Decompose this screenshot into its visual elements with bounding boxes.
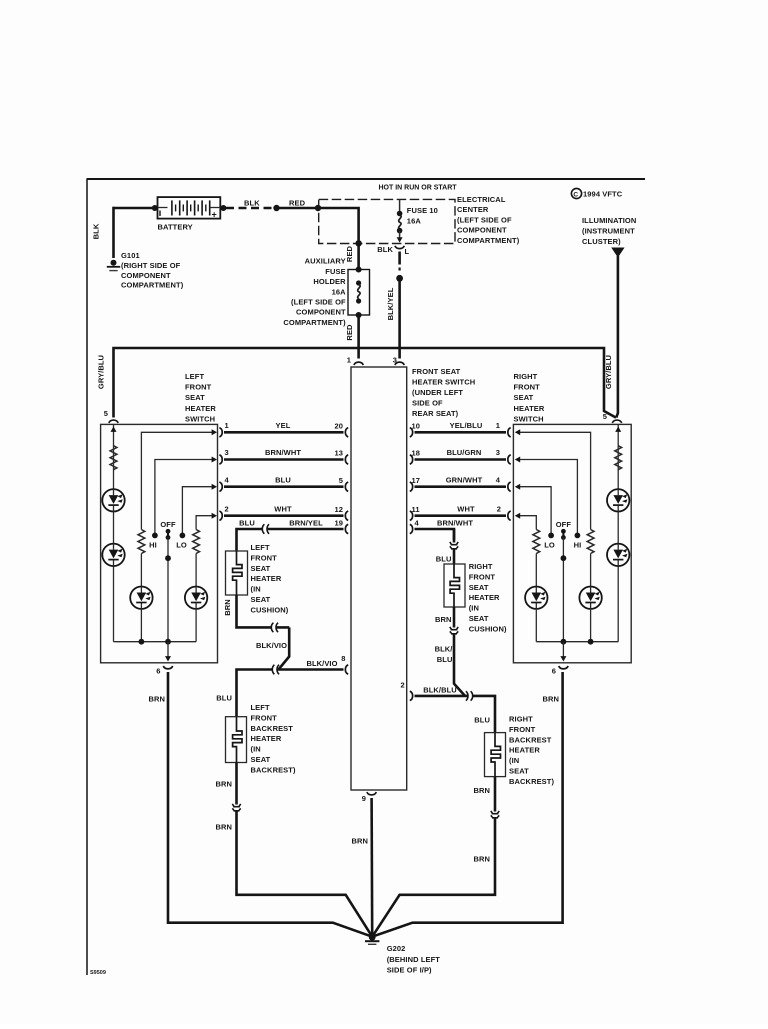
LED indicator left 3 bbox=[130, 587, 152, 609]
inline connector left return bbox=[271, 623, 278, 632]
svg-text:1: 1 bbox=[496, 421, 500, 430]
svg-text:BRN: BRN bbox=[148, 695, 165, 704]
svg-text:WHT: WHT bbox=[457, 504, 475, 513]
svg-text:LEFT: LEFT bbox=[251, 703, 270, 712]
label LEFT FRONT SEAT HEATER (IN SEAT CUSHION) bbox=[251, 543, 289, 614]
svg-text:BRN: BRN bbox=[473, 786, 490, 795]
svg-text:WHT: WHT bbox=[274, 504, 292, 513]
connector cup unit pin 11 bbox=[410, 511, 413, 520]
node battery positive terminal bbox=[220, 205, 226, 211]
svg-text:FRONT SEAT: FRONT SEAT bbox=[412, 367, 461, 376]
arrow down at left pin 6 bbox=[165, 656, 171, 661]
LED indicator left 1 bbox=[102, 489, 124, 511]
svg-text:(INSTRUMENT: (INSTRUMENT bbox=[582, 227, 635, 236]
node bus dot 2 left bbox=[165, 639, 171, 645]
svg-text:BRN/WHT: BRN/WHT bbox=[265, 448, 301, 457]
svg-text:FRONT: FRONT bbox=[509, 725, 536, 734]
svg-text:BLU: BLU bbox=[216, 694, 232, 703]
svg-text:COMPARTMENT): COMPARTMENT) bbox=[457, 236, 520, 245]
wire right backrest return upper bbox=[494, 777, 497, 812]
svg-text:11: 11 bbox=[412, 505, 420, 514]
wire row BLK/VIO to unit pin8 bbox=[237, 670, 344, 717]
svg-text:(IN: (IN bbox=[469, 604, 479, 613]
label RIGHT FRONT SEAT HEATER SWITCH bbox=[514, 372, 545, 423]
svg-text:1: 1 bbox=[347, 356, 351, 365]
wire right seat return bbox=[453, 607, 456, 628]
svg-text:SIDE OF I/P): SIDE OF I/P) bbox=[387, 966, 432, 975]
label RIGHT FRONT BACKREST HEATER (IN SEAT BACKREST) bbox=[509, 715, 554, 786]
svg-text:CUSHION): CUSHION) bbox=[251, 605, 289, 614]
svg-text:RIGHT: RIGHT bbox=[509, 715, 533, 724]
svg-text:BRN: BRN bbox=[473, 855, 490, 864]
resistor left pin5 branch bbox=[110, 446, 117, 470]
illumination off-page triangle bbox=[611, 248, 624, 258]
label G202 bbox=[387, 944, 441, 975]
heater element right front backrest heater bbox=[485, 733, 506, 777]
svg-text:10: 10 bbox=[412, 422, 421, 431]
svg-text:SEAT: SEAT bbox=[251, 755, 271, 764]
svg-text:4: 4 bbox=[225, 475, 230, 484]
arrow up at left pin 5 bbox=[111, 427, 117, 432]
connector cup wire start pin 4 bbox=[219, 482, 222, 491]
svg-text:2: 2 bbox=[225, 504, 229, 513]
connector cup right switch pin 6 bbox=[559, 666, 568, 669]
node bus dot 1 left bbox=[139, 639, 145, 645]
wire RED from electrical center to aux fuse holder bbox=[357, 243, 360, 269]
svg-text:(IN: (IN bbox=[251, 745, 261, 754]
connector right seat return bbox=[450, 627, 458, 634]
resistor left pin1 branch bbox=[138, 530, 145, 554]
svg-text:RIGHT: RIGHT bbox=[469, 562, 493, 571]
left switch internal wire pin2 branch bbox=[196, 516, 213, 530]
connector cup left switch pin 6 bbox=[163, 666, 172, 669]
svg-text:SEAT: SEAT bbox=[251, 564, 271, 573]
connector cup unit pin 9 bottom bbox=[367, 792, 376, 795]
node dot on dashed box bottom bbox=[355, 240, 361, 246]
node battery negative terminal bbox=[152, 205, 158, 211]
left switch internal wire pin1 branch lower bbox=[140, 554, 142, 587]
right switch internal wire pin5 branch bbox=[617, 424, 619, 641]
svg-text:HEATER: HEATER bbox=[251, 734, 282, 743]
LED indicator right 1 bbox=[607, 489, 629, 511]
connector right backrest return bbox=[491, 811, 499, 818]
svg-text:FRONT: FRONT bbox=[185, 383, 212, 392]
svg-text:HI: HI bbox=[149, 541, 157, 550]
svg-text:BLK/YEL: BLK/YEL bbox=[386, 287, 395, 320]
resistor left pin2 branch bbox=[193, 530, 200, 554]
connector cup unit pin 8 bbox=[345, 665, 348, 674]
svg-text:BATTERY: BATTERY bbox=[158, 223, 193, 232]
arrow left at right pin 4 bbox=[515, 484, 520, 490]
svg-text:S9509: S9509 bbox=[90, 970, 106, 976]
svg-text:SEAT: SEAT bbox=[469, 614, 489, 623]
svg-text:G101: G101 bbox=[121, 251, 140, 260]
svg-text:SWITCH: SWITCH bbox=[185, 414, 215, 423]
svg-text:GRY/BLU: GRY/BLU bbox=[97, 355, 106, 389]
svg-text:FUSE 10: FUSE 10 bbox=[407, 206, 438, 215]
connector cup unit pin 17 bbox=[410, 482, 413, 491]
wire BLK/YEL below connector bbox=[398, 252, 401, 265]
wire OFF common left bbox=[167, 538, 169, 642]
LED indicator left 2 bbox=[102, 544, 124, 566]
wire row B BLU/GRN unit pin18 to right switch pin3 bbox=[415, 458, 507, 461]
svg-text:SEAT: SEAT bbox=[185, 393, 205, 402]
svg-text:13: 13 bbox=[334, 449, 343, 458]
svg-text:CENTER: CENTER bbox=[457, 205, 489, 214]
wire row D WHT unit pin11 to right switch pin2 bbox=[415, 514, 507, 517]
border frame top line bbox=[87, 178, 646, 180]
svg-text:CUSHION): CUSHION) bbox=[469, 624, 507, 633]
svg-text:BLU: BLU bbox=[437, 655, 453, 664]
svg-text:BRN/WHT: BRN/WHT bbox=[437, 519, 473, 528]
svg-text:BRN: BRN bbox=[215, 823, 232, 832]
svg-text:BRN: BRN bbox=[223, 599, 232, 616]
svg-text:2: 2 bbox=[401, 681, 405, 690]
left switch internal wire pin2 branch lower bbox=[195, 554, 197, 587]
connector cup unit pin 1 top bbox=[354, 362, 363, 365]
svg-text:CLUSTER): CLUSTER) bbox=[582, 237, 621, 246]
svg-text:1: 1 bbox=[225, 421, 229, 430]
svg-text:YEL/BLU: YEL/BLU bbox=[450, 421, 483, 430]
LED indicator right 2 bbox=[607, 544, 629, 566]
left front seat heater switch box bbox=[101, 424, 218, 662]
svg-text:HEATER: HEATER bbox=[469, 593, 500, 602]
svg-text:COMPARTMENT): COMPARTMENT) bbox=[283, 318, 346, 327]
svg-text:GRN/WHT: GRN/WHT bbox=[446, 475, 483, 484]
svg-text:LEFT: LEFT bbox=[251, 543, 270, 552]
wire row B BRN/WHT left switch pin3 to unit pin13 bbox=[224, 458, 344, 461]
wire OFF common right bbox=[562, 538, 564, 642]
right switch internal wire pin2 branch lower bbox=[535, 554, 537, 587]
label LEFT FRONT BACKREST HEATER (IN SEAT BACKREST) bbox=[251, 703, 296, 774]
wire BRN left switch pin6 to ground bus bbox=[168, 672, 372, 937]
svg-text:9: 9 bbox=[362, 794, 366, 803]
svg-text:4: 4 bbox=[496, 475, 501, 484]
svg-text:RED: RED bbox=[345, 324, 354, 341]
node bus dot 2 right bbox=[588, 639, 594, 645]
heater element right front seat heater bbox=[444, 564, 465, 607]
node junction dot bbox=[273, 205, 279, 211]
svg-text:HOT IN RUN OR START: HOT IN RUN OR START bbox=[379, 184, 458, 191]
svg-text:AUXILIARY: AUXILIARY bbox=[305, 257, 346, 266]
wire row D WHT left switch pin2 to unit pin12 bbox=[224, 514, 344, 517]
wire RED from aux fuse holder to unit pin 1 bbox=[357, 315, 360, 359]
connector cup unit pin 12 bbox=[345, 511, 348, 520]
wire left return down to pin8 row bbox=[279, 627, 290, 669]
arrow left at right pin 1 bbox=[515, 429, 520, 435]
svg-text:FUSE: FUSE bbox=[325, 267, 345, 276]
svg-text:19: 19 bbox=[334, 519, 343, 528]
right front seat heater switch box bbox=[513, 424, 631, 662]
svg-text:HEATER: HEATER bbox=[514, 404, 545, 413]
svg-text:(LEFT SIDE OF: (LEFT SIDE OF bbox=[291, 298, 346, 307]
svg-text:3: 3 bbox=[393, 356, 397, 365]
left switch internal wire pin4 branch to LO bbox=[182, 487, 213, 533]
connector cup right switch pin 3 bbox=[508, 455, 511, 464]
svg-text:BACKREST: BACKREST bbox=[251, 724, 294, 733]
svg-text:C: C bbox=[573, 191, 578, 198]
center unit FRONT SEAT HEATER SWITCH box bbox=[351, 367, 407, 790]
connector cup unit pin 10 bbox=[410, 428, 413, 437]
left switch internal wire pin3 branch to HI bbox=[155, 460, 214, 534]
arrow up at right pin 5 bbox=[615, 427, 621, 432]
svg-text:G202: G202 bbox=[387, 944, 406, 953]
right switch internal wire pin3 branch to HI bbox=[518, 460, 577, 534]
svg-text:6: 6 bbox=[552, 667, 556, 676]
svg-text:BRN: BRN bbox=[542, 695, 559, 704]
svg-text:BACKREST: BACKREST bbox=[509, 735, 552, 744]
connector cup below fuse 10 bbox=[395, 246, 404, 249]
ground G202 bbox=[365, 934, 379, 945]
connector cup unit pin 20 bbox=[345, 428, 348, 437]
wire right seat return to pin2 row bbox=[454, 634, 465, 696]
svg-text:(UNDER LEFT: (UNDER LEFT bbox=[412, 388, 463, 397]
contact LO left bbox=[180, 533, 186, 539]
svg-text:REAR SEAT): REAR SEAT) bbox=[412, 409, 459, 418]
label G101 bbox=[121, 251, 184, 289]
svg-text:LEFT: LEFT bbox=[185, 372, 204, 381]
wire LED right4 to bus bbox=[535, 609, 537, 642]
resistor right pin1 branch bbox=[587, 530, 594, 554]
battery B1 bbox=[158, 197, 221, 219]
svg-text:(IN: (IN bbox=[251, 585, 261, 594]
wire RED solid to electrical center bbox=[277, 207, 319, 210]
svg-text:FRONT: FRONT bbox=[251, 553, 278, 562]
wire row C BLU left switch pin4 to unit pin5 bbox=[224, 485, 344, 488]
wire LED4 to bus bbox=[195, 609, 197, 642]
label AUXILIARY FUSE HOLDER bbox=[283, 257, 346, 327]
wire BRN left seat heater return bbox=[237, 595, 290, 627]
wire right seat heater feed bbox=[453, 529, 456, 543]
label LEFT FRONT SEAT HEATER SWITCH bbox=[185, 372, 216, 423]
svg-text:HEATER: HEATER bbox=[251, 574, 282, 583]
wire bus to pin 6 right bbox=[562, 642, 564, 657]
arrow right at left pin 4 bbox=[212, 484, 217, 490]
right switch internal wire pin1 branch lower bbox=[590, 554, 592, 587]
contact HI right bbox=[575, 533, 581, 539]
svg-text:18: 18 bbox=[412, 449, 421, 458]
connector cup right switch pin 1 bbox=[508, 428, 511, 437]
wire row E BRN/WHT unit pin4 to right seat heater bbox=[415, 529, 455, 540]
svg-text:BLU: BLU bbox=[275, 475, 291, 484]
inline connector pin8 row bbox=[272, 665, 279, 674]
svg-text:BLK/: BLK/ bbox=[435, 645, 454, 654]
arrow right at left pin 1 bbox=[212, 429, 217, 435]
wire BRN unit pin9 to ground bbox=[370, 798, 373, 937]
LED indicator left 4 bbox=[185, 587, 207, 609]
svg-text:16A: 16A bbox=[332, 287, 347, 296]
svg-text:HEATER: HEATER bbox=[509, 746, 540, 755]
svg-text:5: 5 bbox=[603, 412, 607, 421]
svg-text:FRONT: FRONT bbox=[251, 713, 278, 722]
connector left backrest return bbox=[232, 804, 240, 811]
svg-text:COMPARTMENT): COMPARTMENT) bbox=[121, 280, 184, 289]
wire left backrest return lower to ground bus bbox=[237, 811, 373, 937]
label ILLUMINATION bbox=[582, 216, 636, 246]
svg-text:BLU: BLU bbox=[239, 519, 255, 528]
svg-text:BLK/VIO: BLK/VIO bbox=[256, 641, 287, 650]
connector cup left switch pin 5 bbox=[109, 420, 118, 423]
svg-text:(IN: (IN bbox=[509, 756, 519, 765]
electrical center dashed box bbox=[319, 199, 455, 243]
svg-text:SEAT: SEAT bbox=[469, 583, 489, 592]
LED indicator right 3 bbox=[579, 587, 601, 609]
connector cup unit pin 13 bbox=[345, 455, 348, 464]
svg-text:5: 5 bbox=[104, 409, 108, 418]
wire row E BRN/YEL unit pin19 to left seat heater bbox=[237, 529, 344, 551]
svg-text:LO: LO bbox=[544, 541, 555, 550]
connector cup right switch pin 5 bbox=[612, 420, 621, 423]
auxiliary fuse holder box bbox=[348, 267, 370, 319]
svg-text:BRN: BRN bbox=[351, 837, 368, 846]
wire BRN right switch pin6 to ground bus bbox=[372, 672, 562, 937]
right switch internal wire pin2 branch bbox=[518, 516, 536, 530]
node junction at electrical center edge bbox=[315, 205, 321, 211]
svg-text:(LEFT SIDE OF: (LEFT SIDE OF bbox=[457, 215, 512, 224]
connector cup wire start pin 1 bbox=[219, 428, 222, 437]
svg-text:BLK/VIO: BLK/VIO bbox=[306, 659, 337, 668]
arrow right at left pin 3 bbox=[212, 457, 217, 463]
svg-text:8: 8 bbox=[341, 654, 345, 663]
svg-text:+: + bbox=[212, 210, 217, 220]
node common dot right bbox=[561, 555, 567, 561]
svg-text:16A: 16A bbox=[407, 216, 422, 225]
svg-text:(RIGHT SIDE OF: (RIGHT SIDE OF bbox=[121, 261, 181, 270]
arrow down at right pin 6 bbox=[560, 656, 566, 661]
bus bar left switch bbox=[114, 641, 197, 643]
wire LED3 to bus bbox=[140, 609, 142, 642]
wire bus to pin 6 left bbox=[167, 642, 169, 657]
svg-text:RED: RED bbox=[289, 199, 306, 208]
copyright 1994 VFTC bbox=[571, 188, 622, 198]
svg-text:COMPONENT: COMPONENT bbox=[296, 308, 346, 317]
svg-text:SIDE OF: SIDE OF bbox=[412, 399, 443, 408]
label ELECTRICAL CENTER bbox=[457, 195, 520, 245]
svg-text:BLU/GRN: BLU/GRN bbox=[447, 448, 482, 457]
svg-text:BACKREST): BACKREST) bbox=[251, 765, 296, 774]
left switch internal wire pin1 branch bbox=[141, 432, 213, 529]
border frame left line bbox=[86, 179, 88, 975]
LED indicator right 4 bbox=[525, 587, 547, 609]
svg-text:(BEHIND LEFT: (BEHIND LEFT bbox=[387, 955, 441, 964]
svg-text:LO: LO bbox=[176, 541, 187, 550]
svg-text:BRN: BRN bbox=[435, 615, 452, 624]
connector cup unit pin 4 bbox=[410, 524, 413, 533]
ground G101 bbox=[107, 260, 120, 271]
svg-text:L: L bbox=[405, 247, 410, 256]
arrow right at left pin 2 bbox=[212, 513, 217, 519]
node dot on BLK/YEL wire bbox=[396, 275, 403, 282]
svg-text:5: 5 bbox=[339, 476, 343, 485]
wire LED right3 to bus bbox=[590, 609, 592, 642]
wire left backrest return upper bbox=[235, 763, 238, 805]
svg-text:RIGHT: RIGHT bbox=[514, 372, 538, 381]
wire BLK down to G101 bbox=[112, 207, 115, 258]
svg-text:ILLUMINATION: ILLUMINATION bbox=[582, 216, 636, 225]
node bus dot 1 right bbox=[561, 639, 567, 645]
svg-text:COMPONENT: COMPONENT bbox=[457, 226, 507, 235]
svg-text:SWITCH: SWITCH bbox=[514, 414, 544, 423]
wire row A YEL/BLU unit pin10 to right switch pin1 bbox=[415, 431, 507, 434]
heater element left front backrest heater bbox=[226, 717, 247, 763]
svg-text:SEAT: SEAT bbox=[251, 595, 271, 604]
svg-text:1994 VFTC: 1994 VFTC bbox=[583, 190, 623, 199]
connector cup unit pin 19 bbox=[345, 524, 348, 533]
wire to right seat heater bbox=[453, 549, 456, 564]
svg-text:RED: RED bbox=[345, 245, 354, 262]
inline connector pin2 row bbox=[466, 691, 473, 700]
wire GRY/BLU horizontal bus bbox=[114, 348, 617, 418]
svg-text:SEAT: SEAT bbox=[514, 393, 534, 402]
connector right seat heater feed bbox=[450, 542, 458, 549]
connector cup unit pin 2 bbox=[410, 691, 413, 700]
connector cup unit pin 3 top bbox=[395, 362, 404, 365]
wire row BLK/BLU unit pin2 to right backrest bbox=[415, 696, 496, 733]
svg-text:FRONT: FRONT bbox=[514, 383, 541, 392]
node common dot left bbox=[165, 555, 171, 561]
contact HI left bbox=[152, 533, 158, 539]
svg-text:HI: HI bbox=[574, 541, 582, 550]
bus bar right switch bbox=[536, 641, 618, 643]
svg-text:COMPONENT: COMPONENT bbox=[121, 271, 171, 280]
wire row C GRN/WHT unit pin17 to right switch pin4 bbox=[415, 485, 507, 488]
svg-text:BLK: BLK bbox=[92, 223, 101, 239]
inline connector row E left bbox=[262, 524, 269, 533]
svg-text:4: 4 bbox=[415, 519, 420, 528]
svg-text:6: 6 bbox=[156, 667, 160, 676]
connector cup wire start pin 3 bbox=[219, 455, 222, 464]
svg-text:BLK: BLK bbox=[377, 245, 393, 254]
svg-text:BLU: BLU bbox=[436, 555, 452, 564]
svg-text:HEATER: HEATER bbox=[185, 404, 216, 413]
fuse F10 FUSE 10 16A bbox=[397, 199, 403, 242]
svg-text:BLK/BLU: BLK/BLU bbox=[423, 686, 457, 695]
svg-text:ELECTRICAL: ELECTRICAL bbox=[457, 195, 506, 204]
right switch internal wire pin1 branch bbox=[518, 432, 590, 529]
connector cup right switch pin 2 bbox=[508, 511, 511, 520]
svg-text:17: 17 bbox=[412, 476, 421, 485]
svg-text:12: 12 bbox=[334, 505, 343, 514]
wire right backrest return lower to ground bus bbox=[372, 818, 495, 937]
wire inside electrical center to fuse feed bbox=[318, 208, 359, 243]
svg-text:OFF: OFF bbox=[160, 520, 176, 529]
svg-text:2: 2 bbox=[497, 504, 501, 513]
connector cup unit pin 18 bbox=[410, 455, 413, 464]
label RIGHT FRONT SEAT HEATER (IN SEAT CUSHION) bbox=[469, 562, 507, 633]
svg-text:BRN/YEL: BRN/YEL bbox=[289, 519, 323, 528]
svg-text:20: 20 bbox=[334, 422, 343, 431]
svg-text:GRY/BLU: GRY/BLU bbox=[604, 355, 613, 389]
svg-text:OFF: OFF bbox=[556, 520, 572, 529]
right switch internal wire pin4 branch to LO bbox=[518, 487, 551, 533]
svg-text:BLU: BLU bbox=[474, 716, 490, 725]
svg-text:BRN: BRN bbox=[215, 780, 232, 789]
svg-text:3: 3 bbox=[496, 448, 500, 457]
label FRONT SEAT HEATER SWITCH bbox=[412, 367, 475, 418]
wire battery to left corner bbox=[114, 207, 158, 210]
svg-text:BACKREST): BACKREST) bbox=[509, 777, 554, 786]
connector cup right switch pin 4 bbox=[508, 482, 511, 491]
arrow left at right pin 3 bbox=[515, 457, 520, 463]
switch lever OFF right bbox=[561, 529, 566, 540]
heater element left front seat heater bbox=[226, 551, 248, 595]
wire row A YEL left switch pin1 to unit pin20 bbox=[224, 431, 344, 434]
svg-text:SEAT: SEAT bbox=[509, 767, 529, 776]
wire illumination down to right switch pin 5 bbox=[616, 256, 618, 418]
resistor right pin5 branch bbox=[615, 446, 622, 470]
connector cup wire start pin 2 bbox=[219, 511, 222, 520]
resistor right pin2 branch bbox=[533, 530, 540, 554]
